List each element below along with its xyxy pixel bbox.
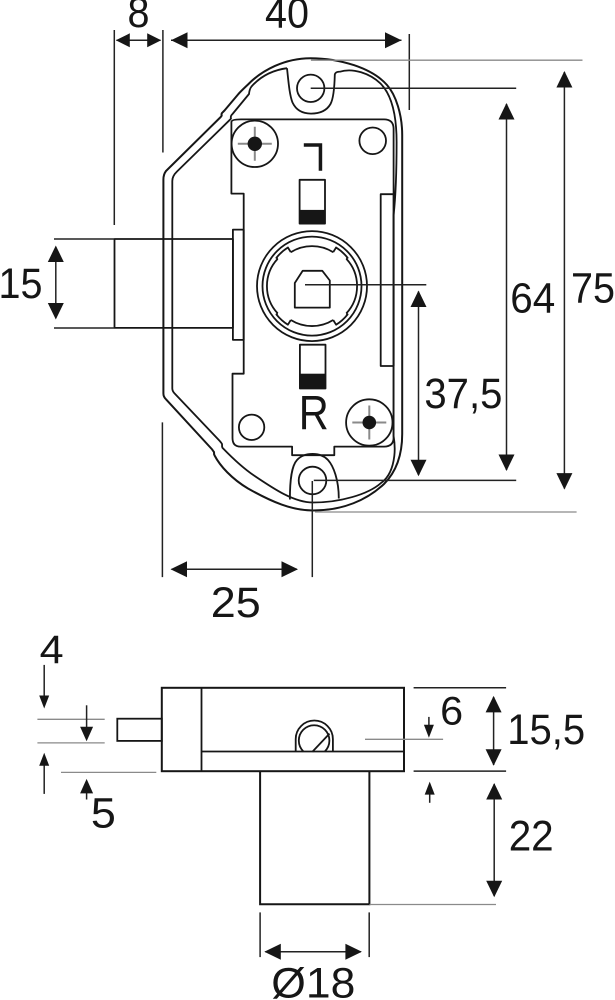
- right latch slot: [381, 194, 394, 366]
- svg-text:40: 40: [265, 0, 309, 38]
- base plate outline with bottom tab: [231, 119, 393, 455]
- extension line 40-right: [408, 34, 410, 110]
- leader bottom hole center right: [314, 479, 516, 481]
- screw U2 bottom-right: center dot: [363, 416, 377, 430]
- leader top hole tangent (grey): [311, 59, 583, 61]
- extension line 8-right / faceplate line: [162, 30, 164, 153]
- keyhole outer ring: [257, 231, 367, 341]
- leader cylinder bottom right: [369, 904, 496, 906]
- dimension line 64: [506, 104, 508, 470]
- arrowheads dim 64: [499, 103, 515, 120]
- turn indicator window lower (outline): [300, 345, 326, 389]
- dimension line 8: [117, 39, 161, 41]
- leader 15 top: [54, 238, 114, 240]
- side view base line: [202, 751, 405, 753]
- screw U1 top-left: center dot: [248, 137, 262, 151]
- dimension line 25: [172, 568, 298, 570]
- turn indicator window upper (outline): [300, 180, 325, 224]
- svg-text:5: 5: [91, 790, 116, 838]
- leader pin top: [37, 718, 104, 720]
- bottom mounting hole: [299, 467, 327, 495]
- svg-text:15,5: 15,5: [507, 706, 585, 754]
- cam lever chord: [312, 734, 329, 752]
- dimension line 15: [55, 247, 57, 318]
- svg-text:8: 8: [128, 0, 150, 37]
- leader cam axis: [365, 738, 443, 740]
- extension line 8-left: [113, 30, 115, 225]
- screw U1 top-left: head circle: [232, 121, 278, 167]
- svg-text:64: 64: [510, 274, 555, 322]
- leader pin bottom: [37, 742, 104, 744]
- dimension line 40: [171, 39, 402, 41]
- extension line O18 right: [368, 912, 370, 957]
- dimension line 75: [563, 72, 565, 489]
- turn indicator lower black band: [300, 374, 326, 389]
- svg-text:37,5: 37,5: [424, 370, 502, 418]
- arrowhead 4 down: [39, 696, 49, 709]
- arrowhead 4 up: [39, 753, 49, 766]
- leader body top right: [414, 687, 507, 689]
- svg-text:4: 4: [40, 628, 64, 672]
- svg-text:15: 15: [0, 260, 43, 308]
- svg-text:R: R: [299, 388, 329, 441]
- leader 15 bottom: [54, 327, 114, 329]
- arrowheads dim 8: [116, 33, 130, 47]
- arrow tail 6 bottom: [429, 789, 431, 803]
- screw U1 top-left: cross lines: [238, 127, 272, 161]
- arrowheads dim 15: [48, 246, 64, 263]
- extension line 25-left: [161, 422, 163, 577]
- arrowheads dim 40: [171, 32, 188, 48]
- side view latch pin: [117, 719, 162, 741]
- arrowheads 15,5: [486, 696, 502, 713]
- dimension line 15,5: [493, 697, 495, 765]
- top mounting hole: [297, 75, 324, 102]
- small hole bottom-left: [239, 415, 264, 440]
- leader keyhole center: [305, 284, 426, 286]
- mounting pocket around bottom screw hole: [290, 454, 339, 500]
- arrowhead 6 up: [425, 782, 435, 795]
- extension line O18 left: [259, 912, 261, 957]
- leader body bottom left: [61, 771, 156, 773]
- side view faceplate line: [201, 688, 203, 771]
- letter L mark (rotated 180): [304, 143, 322, 170]
- arrow tail 5 top: [86, 705, 88, 734]
- lock body outer contour (front view): [163, 58, 402, 510]
- arrowhead 5 down: [80, 727, 93, 742]
- leader top hole center: [311, 87, 517, 89]
- arrowheads dim 25: [171, 561, 188, 577]
- lock body inner contour (stamped shell inner edge): [172, 68, 396, 502]
- turn indicator upper black band: [300, 210, 325, 224]
- svg-text:75: 75: [571, 265, 615, 313]
- leader bottom hole center down: [311, 481, 313, 577]
- arrowhead 6 down: [424, 725, 434, 738]
- screw U2 bottom-right: head circle: [346, 399, 392, 445]
- arrowheads dim 75: [556, 71, 572, 88]
- dimension line O18: [265, 951, 361, 953]
- side view body: [162, 688, 404, 771]
- dimension line 37,5: [418, 292, 420, 476]
- arrowheads 22: [486, 783, 502, 800]
- keyhole rotor circle with notches: [267, 246, 357, 326]
- arrowhead 5 up: [80, 779, 93, 794]
- latch bolt (left protrusion): [115, 239, 233, 328]
- small hole top-right: [359, 128, 386, 155]
- leader body bottom right: [414, 770, 507, 772]
- svg-text:25: 25: [211, 579, 261, 627]
- svg-text:6: 6: [440, 690, 463, 734]
- cam circle: [299, 725, 330, 751]
- arrow tail 4 top: [43, 665, 45, 701]
- arrowheads O18: [264, 944, 281, 960]
- arrowheads dim 37,5: [411, 291, 427, 308]
- screw U2 bottom-right: cross lines: [352, 406, 386, 440]
- leader bottom tangent (grey): [315, 511, 577, 513]
- cam dome: [296, 721, 333, 752]
- svg-text:Ø18: Ø18: [271, 960, 355, 1000]
- mounting pocket around top screw hole: [287, 68, 340, 113]
- arrow tail 5 bottom: [86, 786, 88, 800]
- arrow tail 4 bottom: [43, 759, 45, 794]
- dimension line 22: [493, 784, 495, 896]
- keyhole middle ring: [263, 237, 362, 336]
- latch bolt flange: [233, 230, 244, 340]
- key hub pentagon: [295, 271, 330, 308]
- spindle cylinder: [260, 771, 369, 904]
- arrow tail 6 top: [428, 717, 430, 731]
- svg-text:22: 22: [509, 812, 554, 860]
